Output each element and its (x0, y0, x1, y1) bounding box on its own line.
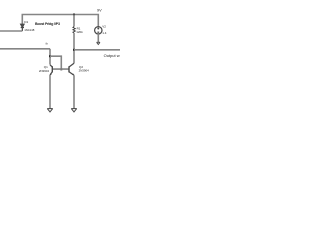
wire diode branch to left edge (0, 30, 22, 32)
wire Q1 emitter down (49, 75, 51, 109)
wire top supply rail (22, 15, 98, 27)
ground under Q2 (71, 109, 76, 112)
wire left input rail (0, 48, 50, 50)
wire resistor top (73, 15, 75, 27)
svg-text:2N3904: 2N3904 (39, 69, 50, 73)
junction dot rail-resistor (73, 14, 75, 16)
svg-text:ib: ib (46, 42, 49, 46)
svg-text:V2: V2 (102, 24, 106, 28)
wire shared base (52, 68, 69, 70)
svg-text:120k: 120k (76, 30, 83, 34)
svg-text:D1: D1 (24, 20, 28, 24)
junction dot collector-base tie (49, 55, 51, 57)
svg-text:1.4: 1.4 (102, 31, 107, 35)
svg-text:Output w: Output w (104, 53, 120, 58)
svg-text:Boost Prktg 0P3: Boost Prktg 0P3 (35, 22, 60, 26)
diode D1 (21, 24, 24, 31)
wire Q1 collector (49, 49, 51, 65)
wire Q2 emitter down (73, 75, 75, 109)
ground under Q1 (47, 109, 52, 112)
transistor Q2 (NPN) (69, 63, 74, 75)
resistor R1 (73, 27, 75, 33)
svg-text:9V: 9V (97, 9, 102, 13)
svg-text:1N4148: 1N4148 (24, 28, 35, 32)
junction dot base wire (60, 68, 62, 70)
svg-text:2N3904: 2N3904 (79, 69, 90, 73)
wire V2 bottom (97, 34, 99, 42)
wire output rail (74, 49, 120, 51)
wire base bridge (50, 56, 61, 69)
junction dot output node (73, 49, 75, 51)
voltage source V2 (95, 27, 102, 34)
ground under V2 (97, 42, 100, 44)
wire resistor bottom to output node (73, 33, 75, 63)
transistor Q1 (mirrored NPN) (50, 65, 52, 75)
